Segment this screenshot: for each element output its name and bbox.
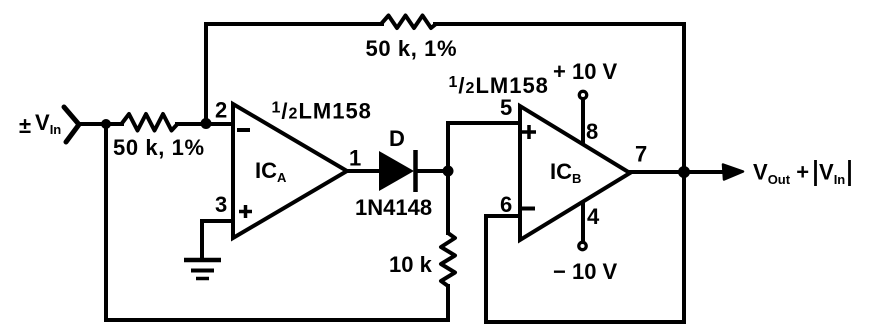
op-amp U1 ICA triangle [233,104,347,238]
svg-text:1/2LM158: 1/2LM158 [449,73,549,98]
ground symbol [184,260,221,279]
svg-text:3: 3 [215,192,227,217]
resistor R2 50k 1% feedback zigzag [381,16,436,29]
wire right vertical from top rail to output node to bottom rail [682,24,686,322]
op-amp U2 ICB triangle [520,106,630,240]
wire 10k top lead from diode node [446,171,450,233]
wire pin 4 vertical [581,200,585,241]
svg-text:50 k, 1%: 50 k, 1% [366,36,458,61]
wire 10k bottom lead [446,286,450,320]
wire bottom rail right loop [486,320,684,324]
node output junction [678,166,690,178]
wire output to arrow [630,170,723,174]
op-amp U1 plus input symbol [239,205,252,218]
wire pin 3 to ground [200,221,204,260]
wire bottom rail left loop [106,318,448,322]
svg-text:2: 2 [215,98,227,123]
node input junction [101,119,111,129]
wire pin 5 horizontal [448,121,521,125]
svg-text:7: 7 [635,142,647,167]
svg-text:VOut +: VOut + [753,160,809,188]
terminal -10V circle [579,242,586,249]
wire top rail left segment [206,22,382,26]
svg-text:50 k, 1%: 50 k, 1% [113,135,205,160]
svg-text:+ 10 V: + 10 V [553,59,618,84]
wire diode cathode to node [417,169,448,173]
resistor R1 50k 1% input zigzag [121,114,177,131]
wire op-amp A output to diode anode [347,169,380,173]
wire input lead [79,122,122,126]
svg-text:− 10 V: − 10 V [553,259,618,284]
wire feedback left vertical [204,24,208,124]
wire input resistor to pin 2 [177,122,233,126]
output arrow head [723,165,743,180]
wire pin 6 stub [486,214,521,218]
wire pin 6 vertical down [484,216,488,322]
svg-text:VIn: VIn [35,110,61,137]
node diode output junction [443,166,454,177]
svg-text:1: 1 [349,146,361,171]
svg-text:D: D [389,126,405,151]
svg-text:VIn: VIn [819,160,845,188]
wire top rail right segment [435,22,684,26]
diode D 1N4148 [379,150,416,192]
svg-text:4: 4 [587,204,600,229]
op-amp U2 plus input symbol [522,125,536,139]
svg-text:8: 8 [586,119,598,144]
svg-text:10 k: 10 k [389,252,433,277]
svg-text:1N4148: 1N4148 [355,195,432,220]
svg-text:1/2LM158: 1/2LM158 [272,99,372,124]
node pin 2 junction [201,118,212,129]
op-amp U2 minus input symbol [522,207,535,211]
wire pin 3 stub [202,219,234,223]
svg-text:5: 5 [500,95,512,120]
svg-text:6: 6 [500,192,512,217]
op-amp U1 minus input symbol [237,128,250,132]
wire input node down [104,124,108,320]
input source chevron [64,107,79,142]
wire pin 8 vertical [581,100,585,146]
wire diode node up to pin 5 level [446,123,450,171]
resistor R3 10k vertical zigzag [441,233,455,286]
svg-text:±: ± [19,113,31,138]
terminal +10V circle [579,91,586,98]
